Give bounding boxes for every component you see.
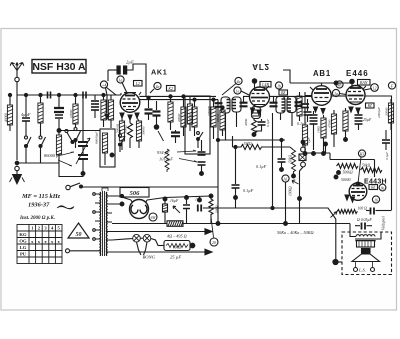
capacitor x186 <box>183 196 190 224</box>
svg-text:OG: OG <box>19 239 27 244</box>
svg-text:Ω 0.05µF: Ω 0.05µF <box>357 218 373 222</box>
resistor R4 x75 <box>69 95 78 127</box>
capacitor C-series bus 1 <box>44 92 54 99</box>
capacitor stack x201 lower <box>198 140 206 175</box>
potentiometer zigzag x211 <box>209 196 219 224</box>
svg-text:40000: 40000 <box>5 113 9 122</box>
svg-text:1010µF: 1010µF <box>159 157 173 162</box>
svg-text:5000Ω: 5000Ω <box>116 123 120 133</box>
terminal circle e443h-k <box>372 196 379 203</box>
wires into speaker box <box>350 232 381 239</box>
valve E443H <box>349 183 367 201</box>
resistor x170 <box>168 95 173 130</box>
wire antenna bus y=95 <box>17 94 121 96</box>
wire y130.5 to coil box <box>59 130 100 132</box>
junction dot left of speaker <box>333 259 342 264</box>
terminal circle H3 <box>358 150 366 184</box>
svg-text:934 pF: 934 pF <box>157 150 170 155</box>
resistor column x299 <box>297 92 302 121</box>
capacitor 4 µµF <box>21 93 31 133</box>
svg-text:10000: 10000 <box>69 109 73 118</box>
boxed label K2 <box>167 86 176 92</box>
title box NSF H30 A <box>32 60 86 74</box>
terminal circle e443h-extra <box>379 184 386 191</box>
svg-text:AB1: AB1 <box>313 69 331 78</box>
coil box below AG2 <box>252 107 261 119</box>
switch S-R4 <box>74 128 81 149</box>
wire y208 long <box>203 208 336 219</box>
svg-text:4a: 4a <box>237 80 241 84</box>
junction dot rect in <box>120 202 124 206</box>
speaker magnet <box>362 249 371 254</box>
dial lamp 1 <box>133 234 141 255</box>
svg-text:H3: H3 <box>359 152 365 156</box>
mains terminal <box>66 249 96 253</box>
valve rectifier 506 <box>130 200 149 219</box>
terminal circle ag2-c <box>275 82 282 89</box>
svg-text:+4: +4 <box>102 83 107 87</box>
svg-text:4a: 4a <box>156 85 160 89</box>
box label 506 <box>120 188 149 198</box>
svg-text:2µF: 2µF <box>126 60 134 65</box>
resistor zigzag 500kΩ <box>337 164 359 175</box>
boxed label BZB e446 <box>366 103 375 108</box>
svg-text:1MΩ: 1MΩ <box>243 141 252 146</box>
svg-text:4Ω – 495 Ω: 4Ω – 495 Ω <box>167 234 187 239</box>
svg-text:100 Ω: 100 Ω <box>358 207 368 211</box>
wire left return y=163 <box>17 162 59 164</box>
svg-text:A1: A1 <box>282 177 287 181</box>
capacitor C5 x95 <box>91 95 99 118</box>
junction dot x112 y155 <box>110 153 114 157</box>
svg-text:16: 16 <box>374 198 378 202</box>
wire y252 arrow <box>112 249 212 255</box>
resistor zigzag 100Ω horizontal <box>331 207 368 218</box>
IF T2 wires <box>274 96 293 126</box>
svg-text:1a: 1a <box>334 92 338 96</box>
dashed enclosure <box>342 232 392 275</box>
wire y147 to x290 down <box>290 147 294 150</box>
junction antenna lead <box>15 161 19 165</box>
svg-text:100kΩ: 100kΩ <box>289 186 293 196</box>
svg-text:800Ω: 800Ω <box>173 246 181 250</box>
svg-text:9a: 9a <box>381 186 385 190</box>
boxed label BZB2 <box>279 90 288 95</box>
svg-text:16µF: 16µF <box>170 199 179 203</box>
junction dot E446 grid <box>350 79 354 83</box>
terminal circle right edge <box>388 82 395 89</box>
capacitor x199 series <box>198 197 202 212</box>
meter circle 6W <box>149 213 157 221</box>
resistor x213 <box>207 98 216 139</box>
svg-text:LG: LG <box>20 245 27 250</box>
junction dot grid bus x336 <box>334 81 338 85</box>
resistor 1MΩ horizontal <box>218 140 290 150</box>
pot wiper to circle 20 <box>210 217 218 246</box>
svg-text:12: 12 <box>373 86 377 90</box>
valve AG2 <box>250 83 270 107</box>
wire y196 transformer-top <box>112 196 211 200</box>
terminal circle ag2-a <box>235 77 242 84</box>
svg-text:NSF H30 A: NSF H30 A <box>32 61 86 73</box>
svg-text:PU: PU <box>20 252 27 257</box>
capacitor 2µF top <box>108 60 146 97</box>
svg-text:K2: K2 <box>167 86 173 91</box>
svg-text:400Ω: 400Ω <box>244 118 248 126</box>
capacitor series pair lower <box>355 223 372 230</box>
switch ps <box>173 206 180 213</box>
junction y204 <box>209 194 213 198</box>
boxed label BAN <box>358 80 371 86</box>
resistor x323 <box>317 115 327 155</box>
valve table <box>17 225 62 264</box>
valve AB1 <box>310 83 331 105</box>
IF transformer T2 coil a <box>276 97 285 114</box>
resistor zigzag x167 vertical <box>165 149 169 172</box>
IF T1 coil b <box>232 97 241 112</box>
capacitor series right <box>366 208 392 215</box>
wire y159.5 <box>330 160 375 178</box>
svg-text:20000: 20000 <box>177 113 181 122</box>
resistor x183 tall <box>177 95 186 136</box>
resistor x345 <box>343 108 348 141</box>
capacitor x307 <box>297 99 312 126</box>
svg-text:BAN: BAN <box>360 80 368 85</box>
wire grid AG2 down x232 <box>232 136 234 147</box>
svg-text:500kΩ: 500kΩ <box>343 171 353 175</box>
wire AG2 to AB1 <box>270 95 312 97</box>
IF T2 cap b <box>295 102 303 106</box>
resistor zigzag 2 <box>361 164 383 173</box>
svg-text:47000: 47000 <box>328 119 332 128</box>
capacitor AB1 plate <box>301 104 309 108</box>
wire +4 circle down <box>106 88 108 113</box>
junction x218 y223 <box>216 222 220 226</box>
switch x66 <box>65 130 74 144</box>
IF T1 cap a <box>215 103 223 107</box>
svg-text:20: 20 <box>212 241 216 245</box>
label 934 pF <box>157 150 197 162</box>
speaker LS terminals <box>354 262 375 273</box>
capacitor x358 25µF <box>355 108 372 130</box>
oscillator box <box>184 96 211 154</box>
svg-text:50kΩ: 50kΩ <box>362 164 370 168</box>
capacitor AG2 k <box>254 118 270 131</box>
svg-text:50Ka – 40Ka – 50KΩ: 50Ka – 40Ka – 50KΩ <box>277 230 314 235</box>
svg-text:Veldspoel: Veldspoel <box>382 216 386 230</box>
resistor zigzag x293 vertical <box>292 150 296 174</box>
svg-text:1b: 1b <box>277 84 281 88</box>
switch S2 <box>39 133 46 163</box>
svg-text:MF = 115 kHz: MF = 115 kHz <box>21 193 61 200</box>
junction dots zigzag left <box>337 171 341 175</box>
wire antenna down-lead <box>16 95 18 160</box>
resistor R-ant 40000 <box>5 93 13 131</box>
dial lamp 2 <box>143 234 151 255</box>
valve AK1 <box>120 92 141 112</box>
svg-text:1MΩ: 1MΩ <box>317 126 321 133</box>
resistor small x165 top <box>163 197 168 223</box>
svg-text:0.1µF: 0.1µF <box>243 188 254 193</box>
resistor x334 <box>328 110 337 147</box>
variable capacitor C-tune1 <box>76 95 90 177</box>
terminal circle e446-a <box>336 81 343 88</box>
ground symbol <box>10 171 25 184</box>
vertical x285 <box>284 222 288 226</box>
capacitor big C3 <box>54 93 64 132</box>
junction dot x325 <box>324 142 328 146</box>
output transformer winding <box>355 235 376 241</box>
resistor AK1 k2 zigzag <box>124 120 133 148</box>
speaker transformer box <box>357 241 375 248</box>
wire A1 down <box>285 182 287 223</box>
AG2 cathode arrows <box>251 108 262 115</box>
junction dots x218 <box>216 138 219 141</box>
switch S3 x120 <box>119 130 126 152</box>
svg-text:1e: 1e <box>236 89 240 93</box>
IF T2 coil b <box>287 97 296 113</box>
terminal circle e446-c 12 <box>364 84 378 92</box>
capacitor x175 thick <box>171 130 180 143</box>
IF T1 wires <box>226 96 244 140</box>
E446 cathode arrows <box>349 107 360 113</box>
wire E446 to right bus <box>365 96 392 210</box>
IF T2 cap a <box>270 103 278 107</box>
wire AK1 plate line <box>140 95 251 97</box>
svg-text:25000: 25000 <box>184 109 188 118</box>
diagonal IFT to AG2 terminal <box>222 84 236 96</box>
vertical x272 <box>272 113 274 208</box>
wire y152 bus <box>305 153 330 160</box>
terminal circle A1 <box>282 175 289 182</box>
svg-text:2000µF: 2000µF <box>377 106 381 118</box>
svg-text:0.1µF: 0.1µF <box>256 164 267 169</box>
switch below x156 <box>158 131 164 141</box>
squiggle mark <box>57 206 74 209</box>
boxed label e443h <box>369 185 378 190</box>
wire AB1 plate left <box>305 92 312 103</box>
svg-text:Inst. 2000 Ω p.K.: Inst. 2000 Ω p.K. <box>19 216 55 221</box>
resistor AK1 k3 <box>136 118 145 148</box>
IF T1 cap b <box>240 103 248 107</box>
label 86000 pF <box>44 152 74 166</box>
wire AK1 screen line <box>139 99 218 101</box>
svg-text:4µµF: 4µµF <box>21 112 31 117</box>
pin circle x303 <box>301 140 306 152</box>
svg-text:E446: E446 <box>346 69 369 78</box>
IF transformer T1 coil a <box>221 97 230 113</box>
junction dot E443H top <box>356 182 360 186</box>
arrow into A1 <box>292 180 299 184</box>
svg-text:1a: 1a <box>119 78 123 82</box>
resistor right edge x391 <box>385 99 394 130</box>
wire y230 arrow <box>112 229 212 235</box>
resistor box 800 <box>158 241 195 251</box>
valve E446 <box>346 83 366 105</box>
svg-text:506: 506 <box>130 190 141 197</box>
svg-text:0.1µF: 0.1µF <box>385 151 389 160</box>
resistor AK1 k1 <box>116 118 125 150</box>
valve AG2 label (inverted) <box>252 62 269 71</box>
svg-text:L2: L2 <box>135 81 140 86</box>
resistor R6 x111 <box>108 95 113 128</box>
mains switch <box>66 183 218 190</box>
coil box oscillator left <box>95 129 116 167</box>
svg-text:25 µF: 25 µF <box>170 255 181 260</box>
svg-text:86000µF: 86000µF <box>95 131 99 144</box>
capacitor 0.1uF x235 <box>232 145 254 208</box>
resistor x222 <box>216 106 225 136</box>
boxed label L2 <box>134 81 143 87</box>
capacitor x313 <box>307 111 318 155</box>
speaker cone <box>352 254 380 262</box>
svg-text:100000: 100000 <box>207 106 211 116</box>
terminal circle earth <box>15 166 19 170</box>
svg-text:800Ω: 800Ω <box>124 125 128 133</box>
svg-text:20000: 20000 <box>385 107 389 116</box>
wire AB1 to E446 <box>331 95 346 97</box>
switch S1 <box>25 133 32 163</box>
junction dot ag2 top <box>252 79 256 83</box>
resistor zigzag AG2 k <box>244 118 257 136</box>
junction x272 y204 <box>271 206 274 209</box>
antenna <box>10 63 24 96</box>
fuse hatched box y222 <box>167 221 183 227</box>
terminal circle e446-b <box>332 89 346 96</box>
terminal circle g4 <box>150 82 161 93</box>
wire grid bus y83 <box>283 70 351 83</box>
terminal circle g1 <box>117 76 127 93</box>
terminal circle a1 <box>100 81 116 95</box>
dot on wire y196 <box>120 194 123 197</box>
capacitor bus series 2 <box>83 92 86 99</box>
terminal circle ag2-b <box>234 87 249 95</box>
capacitor x148 thick <box>145 96 153 120</box>
svg-text:KG: KG <box>19 232 27 237</box>
boxed label L4B <box>260 82 271 88</box>
AB1 cathode arrows <box>314 107 326 114</box>
resistor x194 tall <box>188 98 197 136</box>
resistor x305 below AB1 <box>302 121 307 155</box>
junction x75 <box>74 93 77 96</box>
svg-text:50: 50 <box>76 232 82 238</box>
svg-text:AK1: AK1 <box>151 68 167 77</box>
capacitor right edge x386 <box>382 130 390 150</box>
svg-text:50000: 50000 <box>341 178 351 182</box>
wire y222 bus <box>112 224 350 233</box>
svg-text:25µF: 25µF <box>363 118 372 122</box>
wire x218 vertical <box>217 100 219 224</box>
resistor R5 x103 <box>101 93 106 127</box>
svg-text:500Ω: 500Ω <box>215 205 219 213</box>
vertical x336 down to speaker dot <box>335 219 337 259</box>
svg-text:1936-37: 1936-37 <box>28 202 50 209</box>
AK1 cathode arrows <box>105 113 139 120</box>
E443H cathode arrows <box>345 195 355 202</box>
capacitor 0.1uF x281 <box>256 138 286 171</box>
svg-text:30000: 30000 <box>142 126 146 135</box>
svg-text:L.S.: L.S. <box>358 268 366 273</box>
triangle 50 <box>68 223 89 238</box>
wire to dial lamps <box>112 238 164 245</box>
junction dot x293 <box>292 174 296 178</box>
svg-text:0.1µF: 0.1µF <box>266 118 270 127</box>
resistor R2 <box>38 93 43 133</box>
resistor R3 below C3 <box>56 132 80 177</box>
small box x301 <box>298 154 306 224</box>
svg-text:ΑΓ2: ΑΓ2 <box>252 62 269 71</box>
svg-text:86000 pF: 86000 pF <box>44 153 61 158</box>
mains transformer <box>93 188 122 256</box>
capacitor x156 thick <box>153 101 161 129</box>
svg-text:BONG: BONG <box>143 255 156 260</box>
